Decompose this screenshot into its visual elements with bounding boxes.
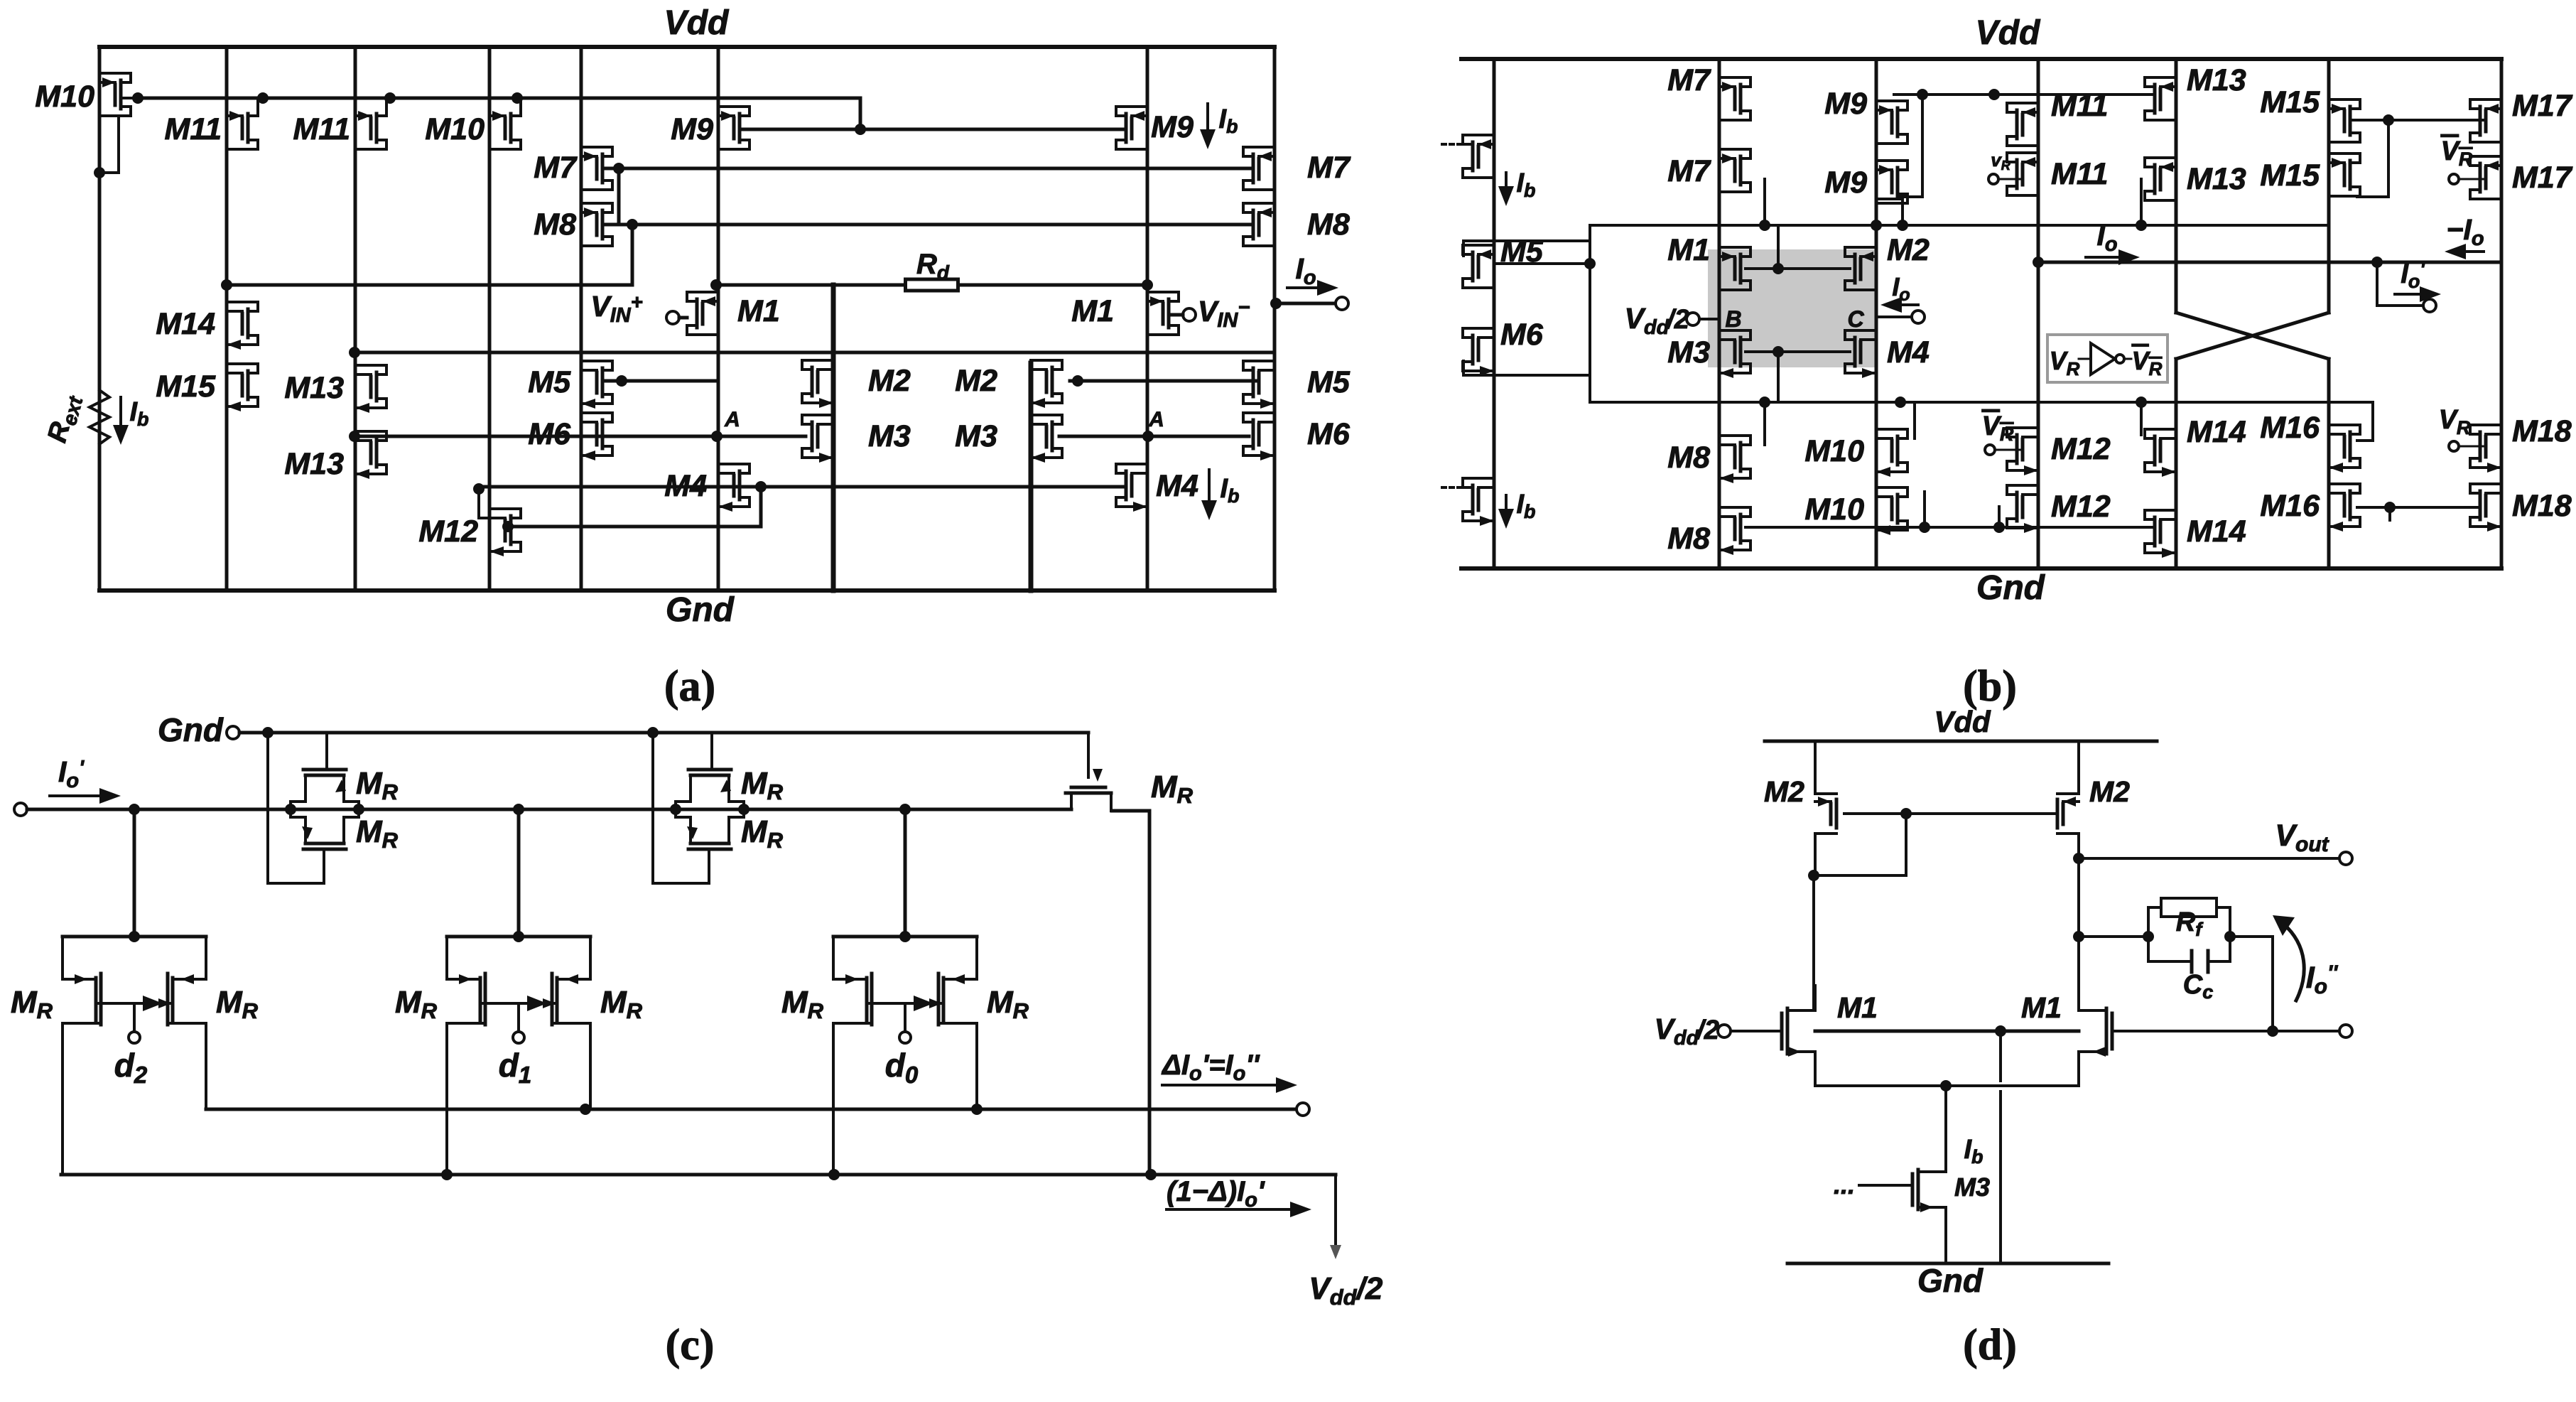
svg-text:M11: M11 (165, 112, 222, 146)
svg-text:Gnd: Gnd (1917, 1262, 1984, 1299)
svg-text:M7: M7 (1307, 151, 1351, 185)
svg-text:M2: M2 (2089, 775, 2130, 808)
svg-text:M6: M6 (1500, 318, 1544, 352)
svg-text:/2: /2 (1355, 1271, 1383, 1306)
svg-text:M5: M5 (1307, 365, 1351, 399)
svg-text:(c): (c) (666, 1321, 715, 1369)
svg-text:M9: M9 (1824, 87, 1867, 121)
svg-text:M4: M4 (1887, 335, 1930, 370)
svg-text:M1: M1 (1837, 991, 1878, 1024)
svg-text:Gnd: Gnd (666, 591, 735, 629)
svg-text:M10: M10 (1804, 492, 1864, 527)
svg-text:M16: M16 (2260, 489, 2320, 523)
svg-text:M14: M14 (2187, 415, 2246, 449)
svg-text:M9: M9 (671, 112, 713, 146)
svg-text:M8: M8 (1307, 207, 1350, 242)
svg-text:Vdd: Vdd (1976, 14, 2041, 52)
svg-text:/2: /2 (1665, 305, 1689, 335)
svg-text:ΔIo'=Io'': ΔIo'=Io'' (1161, 1050, 1260, 1085)
svg-text:M15: M15 (2260, 85, 2320, 119)
svg-text:...: ... (1834, 1170, 1855, 1199)
svg-text:M18: M18 (2512, 414, 2572, 448)
svg-text:M2: M2 (1887, 233, 1930, 267)
svg-text:M4: M4 (664, 469, 707, 503)
svg-text:M14: M14 (2187, 514, 2246, 549)
svg-text:M12: M12 (2051, 490, 2111, 524)
svg-text:M6: M6 (528, 417, 571, 451)
svg-text:M8: M8 (534, 207, 576, 242)
svg-text:M11: M11 (293, 112, 350, 146)
svg-text:M2: M2 (868, 364, 911, 398)
svg-text:/2: /2 (1695, 1015, 1719, 1045)
svg-text:M16: M16 (2260, 411, 2320, 445)
svg-text:Gnd: Gnd (1976, 569, 2046, 607)
svg-text:B: B (1725, 306, 1741, 332)
svg-text:M9: M9 (1151, 110, 1194, 144)
svg-text:M4: M4 (1156, 469, 1198, 503)
svg-text:M10: M10 (425, 112, 485, 146)
svg-text:M6: M6 (1307, 417, 1351, 451)
svg-text:M8: M8 (1667, 441, 1710, 475)
svg-text:M14: M14 (156, 307, 215, 341)
svg-text:M1: M1 (1071, 294, 1114, 328)
svg-text:Gnd: Gnd (158, 711, 224, 748)
svg-text:M10: M10 (1804, 434, 1864, 468)
svg-text:M3: M3 (955, 419, 997, 453)
svg-text:M11: M11 (2051, 89, 2108, 123)
svg-text:M11: M11 (2051, 157, 2108, 191)
svg-text:M2: M2 (955, 364, 997, 398)
svg-text:M1: M1 (737, 294, 780, 328)
svg-text:M1: M1 (2021, 991, 2062, 1024)
svg-text:M17: M17 (2512, 89, 2573, 123)
svg-text:M3: M3 (1667, 335, 1710, 370)
svg-text:M12: M12 (2051, 432, 2111, 466)
svg-text:(a): (a) (664, 662, 715, 711)
svg-text:M8: M8 (1667, 522, 1710, 556)
svg-text:M13: M13 (2187, 162, 2246, 196)
svg-text:M2: M2 (1764, 775, 1804, 808)
svg-text:M7: M7 (534, 151, 578, 185)
svg-text:M7: M7 (1667, 154, 1711, 188)
svg-text:A: A (724, 408, 740, 431)
svg-text:M1: M1 (1667, 233, 1710, 267)
svg-text:M13: M13 (2187, 63, 2246, 97)
svg-text:Vdd: Vdd (1934, 705, 1991, 738)
svg-text:M15: M15 (156, 370, 216, 404)
svg-text:M17: M17 (2512, 161, 2573, 195)
svg-text:M15: M15 (2260, 158, 2320, 193)
svg-text:M18: M18 (2512, 489, 2572, 523)
svg-text:M9: M9 (1824, 166, 1867, 200)
svg-text:M3: M3 (868, 419, 911, 453)
svg-text:A: A (1148, 408, 1164, 431)
svg-text:(b): (b) (1963, 662, 2017, 711)
svg-text:M13: M13 (284, 447, 344, 481)
svg-text:M13: M13 (284, 371, 344, 405)
svg-text:M10: M10 (35, 80, 94, 114)
svg-text:M3: M3 (1954, 1172, 1990, 1202)
svg-text:M7: M7 (1667, 63, 1711, 97)
svg-text:M12: M12 (418, 514, 478, 549)
svg-text:Vdd: Vdd (664, 4, 730, 42)
svg-text:(d): (d) (1963, 1321, 2017, 1369)
svg-text:M5: M5 (528, 365, 571, 399)
svg-text:C: C (1847, 306, 1864, 332)
